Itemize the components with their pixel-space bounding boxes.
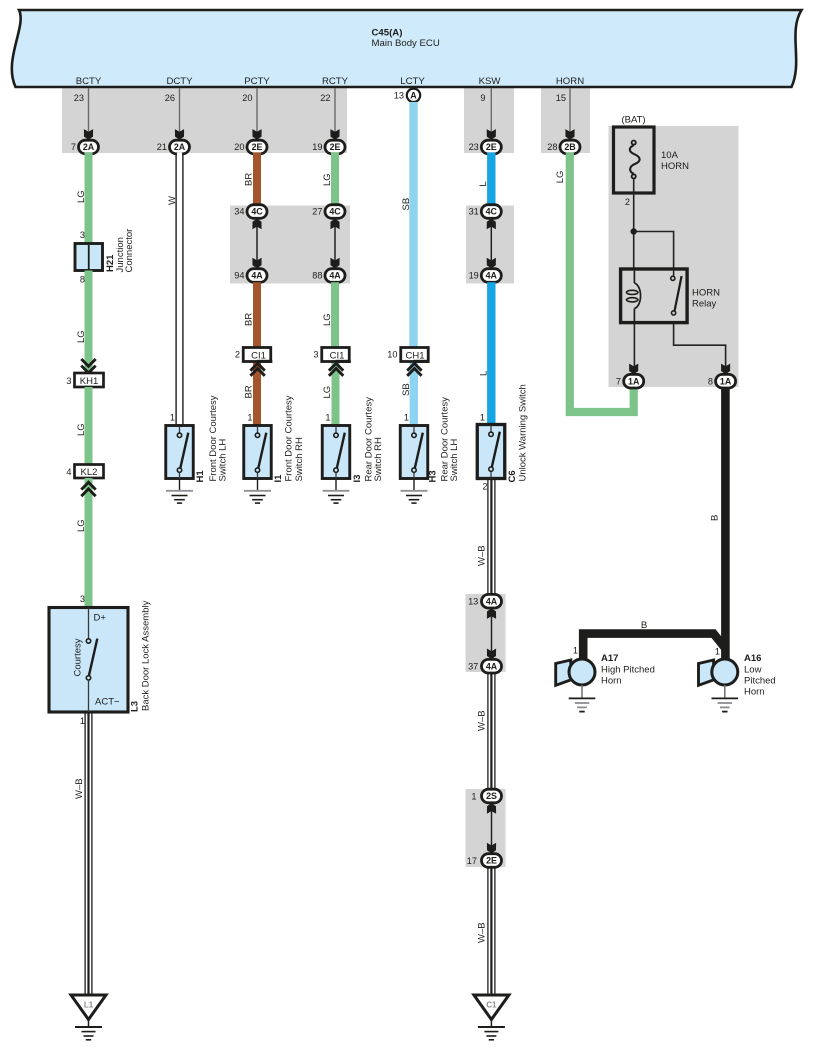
horn A16 low pitched horn: [699, 653, 776, 698]
connector 19 2E: [312, 140, 345, 154]
svg-text:I1: I1: [273, 474, 284, 483]
svg-text:Unlock Warning Switch: Unlock Warning Switch: [518, 384, 529, 481]
svg-text:4C: 4C: [251, 207, 263, 217]
wire from ECU HORN to connector 2B: [569, 88, 571, 132]
connector 19 4A: [469, 269, 502, 283]
svg-text:3: 3: [66, 376, 71, 386]
wire-to-wire arrows 4A to 4A: [487, 608, 496, 659]
connector 94 4A: [234, 269, 267, 283]
svg-text:HORN: HORN: [556, 76, 584, 87]
svg-text:2: 2: [235, 350, 240, 360]
wire-to-wire arrows 4C to 4A: [252, 218, 261, 268]
wire SB LCTY segment 2: [410, 362, 418, 426]
connector 20 2E: [234, 140, 267, 154]
svg-text:1: 1: [715, 647, 720, 657]
svg-text:15: 15: [556, 93, 566, 103]
svg-text:20: 20: [242, 93, 252, 103]
svg-text:LG: LG: [76, 330, 87, 343]
ECU band C45(A) Main Body ECU: [12, 10, 802, 87]
ground point L1: [71, 995, 106, 1040]
svg-text:H3: H3: [428, 470, 439, 482]
wire LG BCTY vertical segment 3: [85, 387, 93, 465]
svg-text:KL2: KL2: [81, 467, 98, 478]
svg-text:21: 21: [157, 142, 167, 152]
wire relay switch to connector 1A: [674, 323, 726, 369]
svg-text:27: 27: [312, 207, 322, 217]
svg-text:KSW: KSW: [479, 76, 502, 87]
wire BR PCTY segment 3: [253, 362, 261, 426]
svg-text:Pitched: Pitched: [744, 676, 776, 687]
svg-text:A17: A17: [601, 653, 618, 664]
wire-to-wire arrows 2S to 2E: [487, 803, 496, 854]
svg-text:Switch LH: Switch LH: [449, 439, 460, 482]
grey box C6 4A-4A: [466, 594, 506, 672]
svg-text:2E: 2E: [486, 142, 497, 152]
svg-text:LG: LG: [322, 313, 333, 326]
connector 23 2E: [469, 140, 502, 154]
svg-text:L3: L3: [130, 701, 141, 712]
svg-text:4: 4: [66, 467, 71, 477]
svg-text:4A: 4A: [486, 271, 498, 281]
svg-text:3: 3: [313, 350, 318, 360]
grey harness box KSW 4C-4A: [466, 206, 514, 284]
svg-text:2: 2: [482, 482, 487, 492]
svg-text:2E: 2E: [330, 142, 341, 152]
svg-text:LG: LG: [322, 386, 333, 399]
grey harness box under BCTY..RCTY: [62, 88, 347, 153]
svg-text:2E: 2E: [486, 856, 497, 866]
ground of A16: [712, 685, 739, 712]
connector 1 2S: [471, 789, 501, 803]
svg-text:Back Door Lock Assembly: Back Door Lock Assembly: [141, 600, 152, 711]
svg-text:3: 3: [80, 230, 85, 240]
connector 3 CI1: [313, 348, 350, 376]
svg-text:Switch RH: Switch RH: [373, 437, 384, 481]
svg-text:HORN: HORN: [661, 161, 689, 172]
svg-text:W–B: W–B: [477, 545, 488, 566]
switch I1 front door courtesy switch RH: [244, 395, 305, 482]
svg-text:2A: 2A: [174, 142, 186, 152]
wire W-B from 2E to ground C1: [477, 867, 495, 995]
connector 8 1A: [708, 374, 736, 388]
svg-text:4A: 4A: [251, 271, 263, 281]
svg-text:Relay: Relay: [692, 299, 717, 310]
svg-text:26: 26: [165, 93, 175, 103]
wire BR PCTY segment 1: [253, 153, 261, 206]
svg-text:13: 13: [394, 91, 404, 101]
svg-text:1A: 1A: [628, 376, 640, 386]
svg-text:9: 9: [480, 93, 485, 103]
svg-text:LG: LG: [76, 190, 87, 203]
connector 10 CH1: [387, 348, 429, 376]
chevron arrows into KH1: [81, 359, 95, 366]
svg-text:Switch RH: Switch RH: [294, 437, 305, 481]
connector 2 CI1 with chevrons: [235, 348, 272, 376]
connector 34 4C: [234, 205, 267, 219]
svg-text:I3: I3: [352, 475, 363, 483]
horn relay: [621, 269, 721, 323]
svg-text:10A: 10A: [661, 150, 679, 161]
grey harness box PCTY/RCTY 4C-4A: [230, 206, 350, 284]
wire L KSW segment 1: [487, 153, 495, 206]
svg-text:8: 8: [708, 376, 713, 386]
svg-text:B: B: [641, 620, 647, 631]
svg-text:C45(A): C45(A): [372, 28, 403, 39]
svg-text:31: 31: [469, 207, 479, 217]
svg-text:L: L: [479, 371, 490, 376]
svg-text:1: 1: [247, 412, 252, 422]
connector 21 2A: [157, 140, 190, 154]
svg-text:1: 1: [480, 412, 485, 422]
svg-text:SB: SB: [401, 198, 412, 211]
back door lock assembly L3: [49, 600, 152, 712]
wire-to-wire arrows 4C to 4A: [487, 218, 496, 268]
svg-text:2E: 2E: [252, 142, 263, 152]
svg-text:W–B: W–B: [477, 710, 488, 731]
wire LG BCTY vertical segment 1: [85, 153, 93, 244]
svg-text:4A: 4A: [486, 661, 498, 671]
svg-text:Horn: Horn: [601, 676, 622, 687]
svg-text:C1: C1: [486, 1001, 497, 1010]
svg-text:A: A: [410, 90, 417, 100]
ground of H1: [166, 479, 193, 504]
wire B branch to high pitched horn: [583, 620, 725, 659]
ground of H3: [401, 479, 428, 504]
svg-text:2: 2: [625, 197, 630, 207]
svg-text:1: 1: [471, 791, 476, 801]
svg-text:B: B: [710, 515, 721, 521]
svg-text:Front Door Courtesy: Front Door Courtesy: [284, 395, 295, 481]
svg-text:1: 1: [573, 646, 578, 656]
wire LG RCTY segment 1: [331, 153, 339, 206]
svg-text:4A: 4A: [329, 271, 341, 281]
svg-text:4A: 4A: [486, 596, 498, 606]
ground of A17: [569, 685, 596, 712]
wire from ECU RCTY to connector 2E: [334, 88, 336, 132]
wire from ECU PCTY to connector 2E: [256, 88, 258, 132]
svg-text:20: 20: [234, 142, 244, 152]
svg-text:(BAT): (BAT): [621, 115, 645, 126]
wire L KSW segment 2: [487, 282, 495, 425]
svg-text:RCTY: RCTY: [322, 76, 349, 87]
wire BR PCTY segment 2: [253, 282, 261, 347]
wire W DCTY to switch H1: [167, 153, 183, 426]
svg-text:22: 22: [320, 93, 330, 103]
svg-text:HORN: HORN: [692, 288, 720, 299]
wire B from 1A to low pitched horn: [710, 387, 726, 660]
svg-text:Horn: Horn: [744, 687, 765, 698]
wire LG HORN to relay pin 7: [555, 153, 634, 413]
svg-text:L1: L1: [84, 1001, 94, 1010]
svg-text:Courtesy: Courtesy: [73, 638, 84, 676]
svg-text:BR: BR: [244, 173, 255, 186]
svg-text:Switch LH: Switch LH: [218, 439, 229, 482]
svg-text:88: 88: [312, 271, 322, 281]
chevron arrows into KL2: [81, 482, 95, 489]
wire relay coil to connector 1A: [633, 323, 635, 369]
junction node: [631, 228, 637, 234]
wire from ECU DCTY to connector 2A: [179, 88, 181, 132]
svg-text:7: 7: [616, 376, 621, 386]
svg-text:A16: A16: [744, 653, 761, 664]
svg-text:CI1: CI1: [251, 350, 266, 361]
svg-text:L: L: [478, 181, 489, 186]
wire LG BCTY vertical segment 2: [85, 271, 93, 374]
wire from ECU BCTY to connector 2A: [88, 88, 90, 132]
ground of I1: [244, 479, 271, 504]
grey harness box under HORN: [541, 88, 590, 153]
grey box fuse and relay: [609, 126, 739, 387]
svg-text:19: 19: [312, 142, 322, 152]
grey harness box under KSW: [464, 88, 514, 153]
connector A circle LCTY: [407, 88, 420, 102]
wire W-B from C6 to 4A: [477, 479, 495, 596]
svg-text:KH1: KH1: [80, 376, 98, 387]
svg-text:High Pitched: High Pitched: [601, 665, 655, 676]
connector 17 2E: [467, 854, 502, 868]
svg-text:34: 34: [234, 207, 244, 217]
svg-text:28: 28: [547, 142, 557, 152]
switch H3 rear door courtesy switch LH: [400, 397, 460, 483]
svg-text:W: W: [167, 196, 178, 205]
svg-text:H1: H1: [195, 470, 206, 483]
svg-text:23: 23: [469, 142, 479, 152]
svg-text:ACT−: ACT−: [95, 697, 120, 708]
svg-text:LG: LG: [322, 173, 333, 186]
svg-text:C6: C6: [507, 470, 518, 482]
svg-text:4C: 4C: [329, 207, 341, 217]
svg-text:BR: BR: [244, 313, 255, 326]
svg-text:1: 1: [80, 716, 85, 726]
connector 37 4A: [468, 659, 501, 673]
fuse 10A HORN: [614, 115, 690, 194]
svg-text:PCTY: PCTY: [244, 76, 270, 87]
wire fuse to relay: [633, 179, 635, 270]
svg-text:LG: LG: [76, 519, 87, 532]
wire LG RCTY segment 2: [331, 282, 339, 347]
svg-text:7: 7: [71, 142, 76, 152]
wire-to-wire arrows 4C to 4A: [330, 218, 339, 268]
junction connector H21: [75, 229, 135, 273]
ground of I3: [323, 479, 350, 504]
svg-text:2A: 2A: [83, 142, 95, 152]
grey box C6 2S-2E: [466, 789, 506, 867]
svg-text:1A: 1A: [720, 376, 732, 386]
connector 13 4A: [468, 594, 501, 608]
svg-text:37: 37: [468, 661, 478, 671]
svg-text:8: 8: [80, 275, 85, 285]
wire LG BCTY vertical segment 4: [85, 478, 93, 608]
connector 7 1A: [616, 374, 644, 388]
svg-text:1: 1: [325, 412, 330, 422]
svg-text:BR: BR: [244, 385, 255, 398]
wire W-B from L3 to ground L1: [74, 712, 92, 995]
svg-text:CH1: CH1: [405, 350, 424, 361]
svg-text:2B: 2B: [564, 142, 575, 152]
svg-text:2S: 2S: [486, 791, 497, 801]
wire W-B from 4A to 2S: [477, 673, 495, 790]
connector 27 4C: [312, 205, 345, 219]
switch C6 unlock warning switch: [477, 384, 528, 482]
wire LG RCTY segment 3: [332, 362, 340, 426]
svg-text:10: 10: [387, 350, 397, 360]
ground point C1: [474, 995, 509, 1040]
svg-text:1: 1: [170, 412, 175, 422]
wire from ECU KSW to connector 2E: [490, 88, 492, 132]
svg-text:W–B: W–B: [477, 922, 488, 943]
svg-text:1: 1: [404, 412, 409, 422]
switch I3 rear door courtesy switch RH: [322, 397, 384, 483]
svg-text:W–B: W–B: [74, 778, 85, 799]
svg-text:13: 13: [468, 596, 478, 606]
wire branch to relay switch: [634, 232, 674, 270]
svg-text:LG: LG: [555, 171, 566, 184]
svg-text:BCTY: BCTY: [76, 76, 102, 87]
connector 31 4C: [469, 205, 502, 219]
svg-text:23: 23: [74, 93, 84, 103]
connector KL2: [66, 465, 103, 479]
svg-text:3: 3: [80, 594, 85, 604]
svg-text:94: 94: [234, 271, 244, 281]
svg-text:17: 17: [467, 856, 477, 866]
svg-text:CI1: CI1: [330, 350, 345, 361]
svg-text:DCTY: DCTY: [166, 76, 193, 87]
svg-text:LG: LG: [76, 423, 87, 436]
svg-text:Main Body ECU: Main Body ECU: [372, 38, 440, 49]
svg-text:LCTY: LCTY: [400, 76, 425, 87]
wire SB LCTY segment 1: [409, 102, 417, 348]
horn A17 high pitched horn: [556, 653, 655, 687]
svg-text:Low: Low: [744, 665, 762, 676]
connector 88 4A: [312, 269, 345, 283]
svg-text:19: 19: [469, 271, 479, 281]
connector 28 2B: [547, 140, 580, 154]
svg-text:4C: 4C: [486, 207, 498, 217]
svg-text:Connector: Connector: [124, 229, 135, 273]
switch H1 front door courtesy switch LH: [166, 395, 229, 482]
connector 7 2A: [71, 140, 99, 154]
connector KH1: [66, 373, 103, 387]
svg-text:D+: D+: [94, 613, 107, 624]
svg-text:SB: SB: [401, 383, 412, 396]
